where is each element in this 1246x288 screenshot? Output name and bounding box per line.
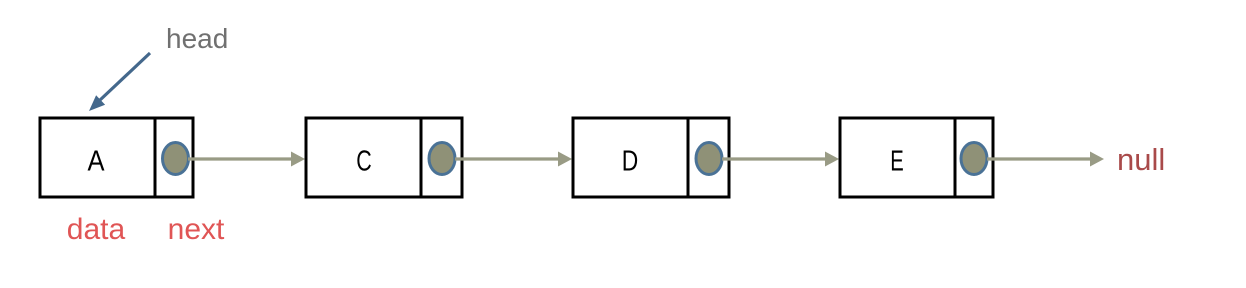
node box D: [573, 118, 729, 197]
svg-text:head: head: [166, 23, 228, 54]
pointer dot E: [961, 143, 987, 175]
svg-text:D: D: [622, 146, 639, 178]
svg-text:A: A: [88, 146, 106, 178]
head arrow: [89, 53, 150, 111]
wire D to E: [722, 152, 839, 167]
pointer dot C: [429, 143, 455, 175]
wire C to D: [455, 152, 572, 167]
svg-text:C: C: [356, 146, 372, 178]
svg-text:null: null: [1117, 142, 1165, 177]
node box C: [306, 118, 462, 197]
pointer dot A: [163, 143, 189, 175]
svg-text:next: next: [168, 213, 225, 246]
svg-text:E: E: [890, 146, 904, 178]
wire E to null: [987, 152, 1104, 167]
pointer dot D: [696, 143, 722, 175]
node box E: [840, 118, 993, 197]
svg-text:data: data: [67, 213, 126, 246]
wire A to C: [188, 152, 305, 167]
node box A: [40, 118, 193, 197]
